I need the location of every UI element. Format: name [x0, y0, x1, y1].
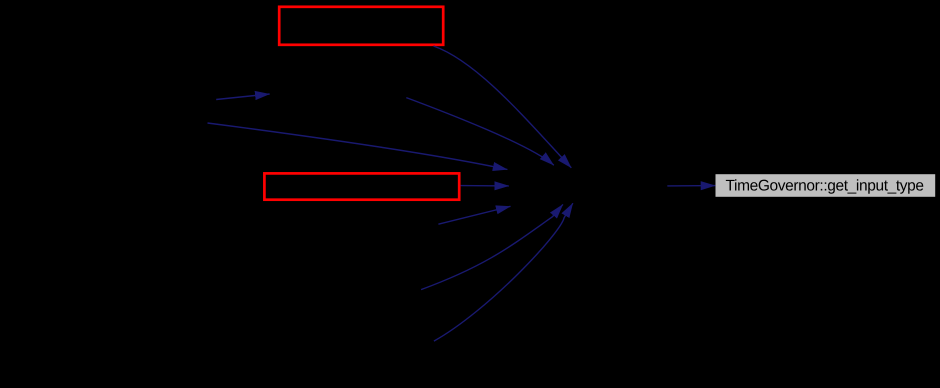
edge E7: hidden bottom node to center node	[421, 204, 563, 289]
edge E5: red box 2 to center node	[461, 185, 509, 187]
node: red box 1 (top, truncated caller)	[279, 7, 443, 45]
edge E9: center hidden node to TimeGovernor::get_input_type	[667, 185, 715, 187]
edge E1: left hidden node to hidden node (short horizontal arrow)	[216, 94, 269, 100]
edge E2: hidden top node to center node	[406, 98, 554, 166]
edge E6: hidden node to center node (lower diagonal)	[438, 206, 510, 224]
edge E8: hidden bottom node to center node	[434, 203, 573, 341]
node: red box 2 (middle-left, truncated caller)	[264, 173, 459, 199]
edge E4: left hidden node to center node (long shallow curve)	[208, 123, 508, 170]
node: TimeGovernor::get_input_type (gray)	[716, 174, 936, 197]
edge E3: red box 1 to center node	[434, 46, 572, 168]
svg-text:TimeGovernor::get_input_type: TimeGovernor::get_input_type	[726, 177, 924, 194]
